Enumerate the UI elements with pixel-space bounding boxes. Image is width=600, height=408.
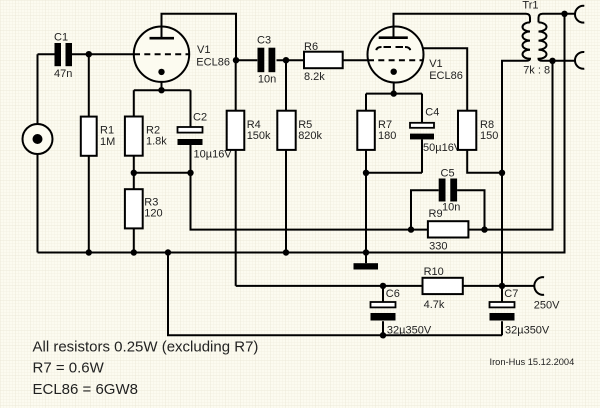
svg-text:47n: 47n (54, 68, 72, 80)
wire C5 left lead (411, 190, 439, 229)
svg-text:180: 180 (378, 130, 396, 142)
wire R7 bottom lead (365, 150, 367, 173)
wire C3 to R6 (277, 59, 305, 61)
svg-text:ECL86: ECL86 (429, 70, 463, 82)
output jack upper (575, 6, 584, 23)
wire C4 top lead (421, 94, 423, 123)
junction node ground drop/rail (165, 249, 171, 255)
resistor R1 (81, 117, 97, 156)
wire R4 bottom lead down to R10 rail (235, 150, 237, 286)
wire R2/R3/C2 junction rail (134, 172, 191, 174)
svg-text:C5: C5 (441, 168, 455, 180)
wire C6 top lead (382, 286, 384, 302)
svg-text:32µ350V: 32µ350V (505, 325, 550, 337)
junction node R1/rail (86, 249, 92, 255)
resistor R2 (125, 117, 143, 156)
wire V1a cathode lead (161, 72, 163, 90)
wire V1b cathode rail R7 to C4 (366, 93, 422, 95)
svg-text:820k: 820k (298, 130, 322, 142)
resistor R10 (423, 278, 463, 294)
wire R2 top lead (133, 90, 135, 116)
svg-text:330: 330 (429, 241, 447, 253)
svg-text:4.7k: 4.7k (424, 299, 445, 311)
wire R8 bottom lead to B+ node (467, 150, 502, 173)
svg-text:250V: 250V (534, 300, 560, 312)
resistor R6 (304, 52, 343, 68)
tube V1a triode (134, 27, 189, 82)
resistor R8 (458, 111, 476, 150)
resistor R7 (357, 111, 375, 150)
svg-text:Tr1: Tr1 (522, 0, 538, 11)
svg-text:32µ350V: 32µ350V (387, 325, 432, 337)
junction node C2/feedback (187, 170, 193, 176)
svg-text:Iron-Hus 15.12.2004: Iron-Hus 15.12.2004 (490, 357, 575, 367)
svg-text:C4: C4 (425, 106, 439, 118)
capacitor C5 (439, 179, 457, 202)
svg-text:V1: V1 (429, 58, 442, 70)
junction node secondary top/feedback (561, 11, 567, 17)
junction node C5 right/R9 (481, 226, 487, 232)
svg-text:R9: R9 (429, 208, 443, 220)
wire input vertical line (37, 54, 39, 252)
wire R5 bottom lead (285, 150, 287, 253)
svg-text:150k: 150k (247, 130, 271, 142)
capacitor C3 (258, 48, 276, 72)
svg-text:50µ16V: 50µ16V (423, 142, 462, 154)
svg-text:C7: C7 (504, 288, 518, 300)
wire ground drop from R7 rail to chassis ground (365, 173, 367, 263)
wire V1a anode to node at C3 (162, 14, 237, 60)
svg-text:R7: R7 (378, 119, 392, 131)
junction node V1a cathode (158, 87, 164, 93)
svg-text:1.8k: 1.8k (146, 136, 167, 148)
junction node R5/rail (283, 249, 289, 255)
junction node C6 bottom (380, 332, 386, 338)
svg-text:C1: C1 (54, 32, 68, 44)
svg-text:R8: R8 (480, 119, 494, 131)
wire C6 bottom lead (382, 321, 384, 335)
svg-text:All resistors 0.25W (excluding: All resistors 0.25W (excluding R7) (33, 339, 259, 356)
junction node C7/B+/250V (499, 283, 505, 289)
svg-text:R7 = 0.6W: R7 = 0.6W (33, 359, 105, 376)
wire B+ line from transformer primary to C7 (502, 61, 526, 302)
wire R1 top lead (88, 54, 90, 116)
svg-text:R6: R6 (304, 41, 318, 53)
svg-text:R5: R5 (298, 119, 312, 131)
wire R2 bottom lead (133, 156, 135, 173)
junction node V1b cathode (391, 90, 397, 96)
junction node C3/R6/R5 (283, 57, 289, 63)
svg-text:150: 150 (480, 130, 498, 142)
wire C1 left lead (38, 53, 55, 55)
junction node C5 left/R9 (408, 226, 414, 232)
svg-text:7k : 8: 7k : 8 (523, 65, 550, 77)
wire C2 bottom lead (190, 145, 192, 173)
svg-text:ECL86: ECL86 (196, 56, 230, 68)
wire long cathode rail (38, 14, 565, 253)
svg-text:R4: R4 (247, 119, 261, 131)
wire V1b anode to transformer primary (394, 14, 531, 40)
wire V1a cathode rail to R2 and C2 (134, 89, 191, 91)
transformer Tr1 primary winding (523, 22, 531, 60)
junction node C3/R4/anode (233, 57, 239, 63)
wire C4 bottom lead (421, 139, 423, 172)
junction node secondary bottom (549, 58, 555, 64)
resistor R3 (125, 189, 143, 228)
wire R1 bottom lead (88, 156, 90, 253)
wire R7 top lead (365, 94, 367, 111)
wire C5 right lead (457, 190, 484, 229)
svg-text:10n: 10n (442, 202, 460, 214)
capacitor C6 electrolytic (371, 302, 396, 321)
junction node C1/R1/grid (86, 51, 92, 57)
resistor R9 (428, 221, 469, 237)
resistor R4 (227, 111, 245, 150)
wire C2 top lead (190, 90, 192, 127)
wire R10 rail with 250V output (236, 285, 535, 287)
capacitor C1 (55, 43, 73, 66)
capacitor C7 electrolytic (490, 302, 515, 321)
wire secondary bottom lead to output jack (543, 60, 576, 62)
capacitor C4 electrolytic (410, 123, 434, 140)
wire R5 top lead (285, 60, 287, 110)
junction node C6 top (380, 283, 386, 289)
svg-text:120: 120 (144, 208, 162, 220)
svg-text:R10: R10 (424, 266, 444, 278)
chassis ground (354, 263, 379, 269)
output jack 250V (534, 277, 544, 295)
output jack lower (575, 52, 584, 69)
svg-text:ECL86 = 6GW8: ECL86 = 6GW8 (33, 381, 138, 398)
svg-text:1M: 1M (100, 136, 115, 148)
junction node R8/B+ (499, 170, 505, 176)
wire feedback line C2 node to transformer secondary (191, 61, 553, 230)
svg-text:V1: V1 (197, 44, 210, 56)
svg-text:C6: C6 (386, 288, 400, 300)
wire ground rail drop to bottom rail (168, 253, 502, 336)
wire R3 bottom lead (133, 228, 135, 252)
junction node R3/rail (131, 249, 137, 255)
svg-text:R3: R3 (144, 197, 158, 209)
wire C7 bottom lead (501, 321, 503, 335)
svg-text:R1: R1 (100, 125, 114, 137)
transformer Tr1 secondary winding (539, 22, 547, 60)
wire R3 top lead (133, 173, 135, 189)
wire R6 to V1b grid (343, 59, 368, 61)
tube V1b pentode (368, 27, 424, 83)
junction node R2/R3 (131, 170, 137, 176)
wire secondary top lead to output jack (539, 14, 576, 23)
svg-text:C3: C3 (257, 35, 271, 47)
input jack J1 (23, 124, 53, 154)
junction node ground/rail (363, 249, 369, 255)
wire C1 right lead to tube V1a grid (72, 53, 134, 55)
wire R7/C4 bottom rail (366, 172, 422, 174)
wire V1b cathode lead (393, 72, 395, 94)
wire V1b screen grid to R8 (423, 48, 467, 110)
svg-text:10n: 10n (258, 74, 276, 86)
junction node R7/C4 bottom (363, 170, 369, 176)
wire C3 left lead (236, 59, 257, 61)
svg-text:C2: C2 (193, 112, 207, 124)
capacitor C2 electrolytic (178, 127, 203, 145)
resistor R5 (277, 111, 295, 150)
svg-text:R2: R2 (146, 125, 160, 137)
svg-text:8.2k: 8.2k (304, 71, 325, 83)
wire R4 top lead (235, 60, 237, 110)
